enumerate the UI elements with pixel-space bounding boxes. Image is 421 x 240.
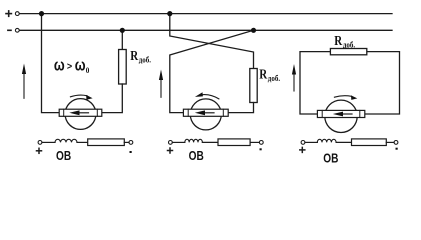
svg-text:R: R: [334, 33, 342, 48]
svg-text:ОВ: ОВ: [189, 148, 204, 164]
svg-text:>: >: [67, 61, 73, 73]
svg-text:доб.: доб.: [268, 73, 280, 83]
svg-text:R: R: [259, 67, 267, 82]
svg-text:0: 0: [86, 66, 90, 76]
svg-text:ω: ω: [54, 56, 65, 75]
svg-text:ОВ: ОВ: [56, 148, 71, 164]
svg-text:ω: ω: [75, 56, 86, 75]
svg-text:доб.: доб.: [343, 40, 355, 50]
svg-text:доб.: доб.: [139, 55, 151, 65]
svg-text:R: R: [130, 48, 138, 63]
svg-text:ОВ: ОВ: [323, 150, 338, 166]
